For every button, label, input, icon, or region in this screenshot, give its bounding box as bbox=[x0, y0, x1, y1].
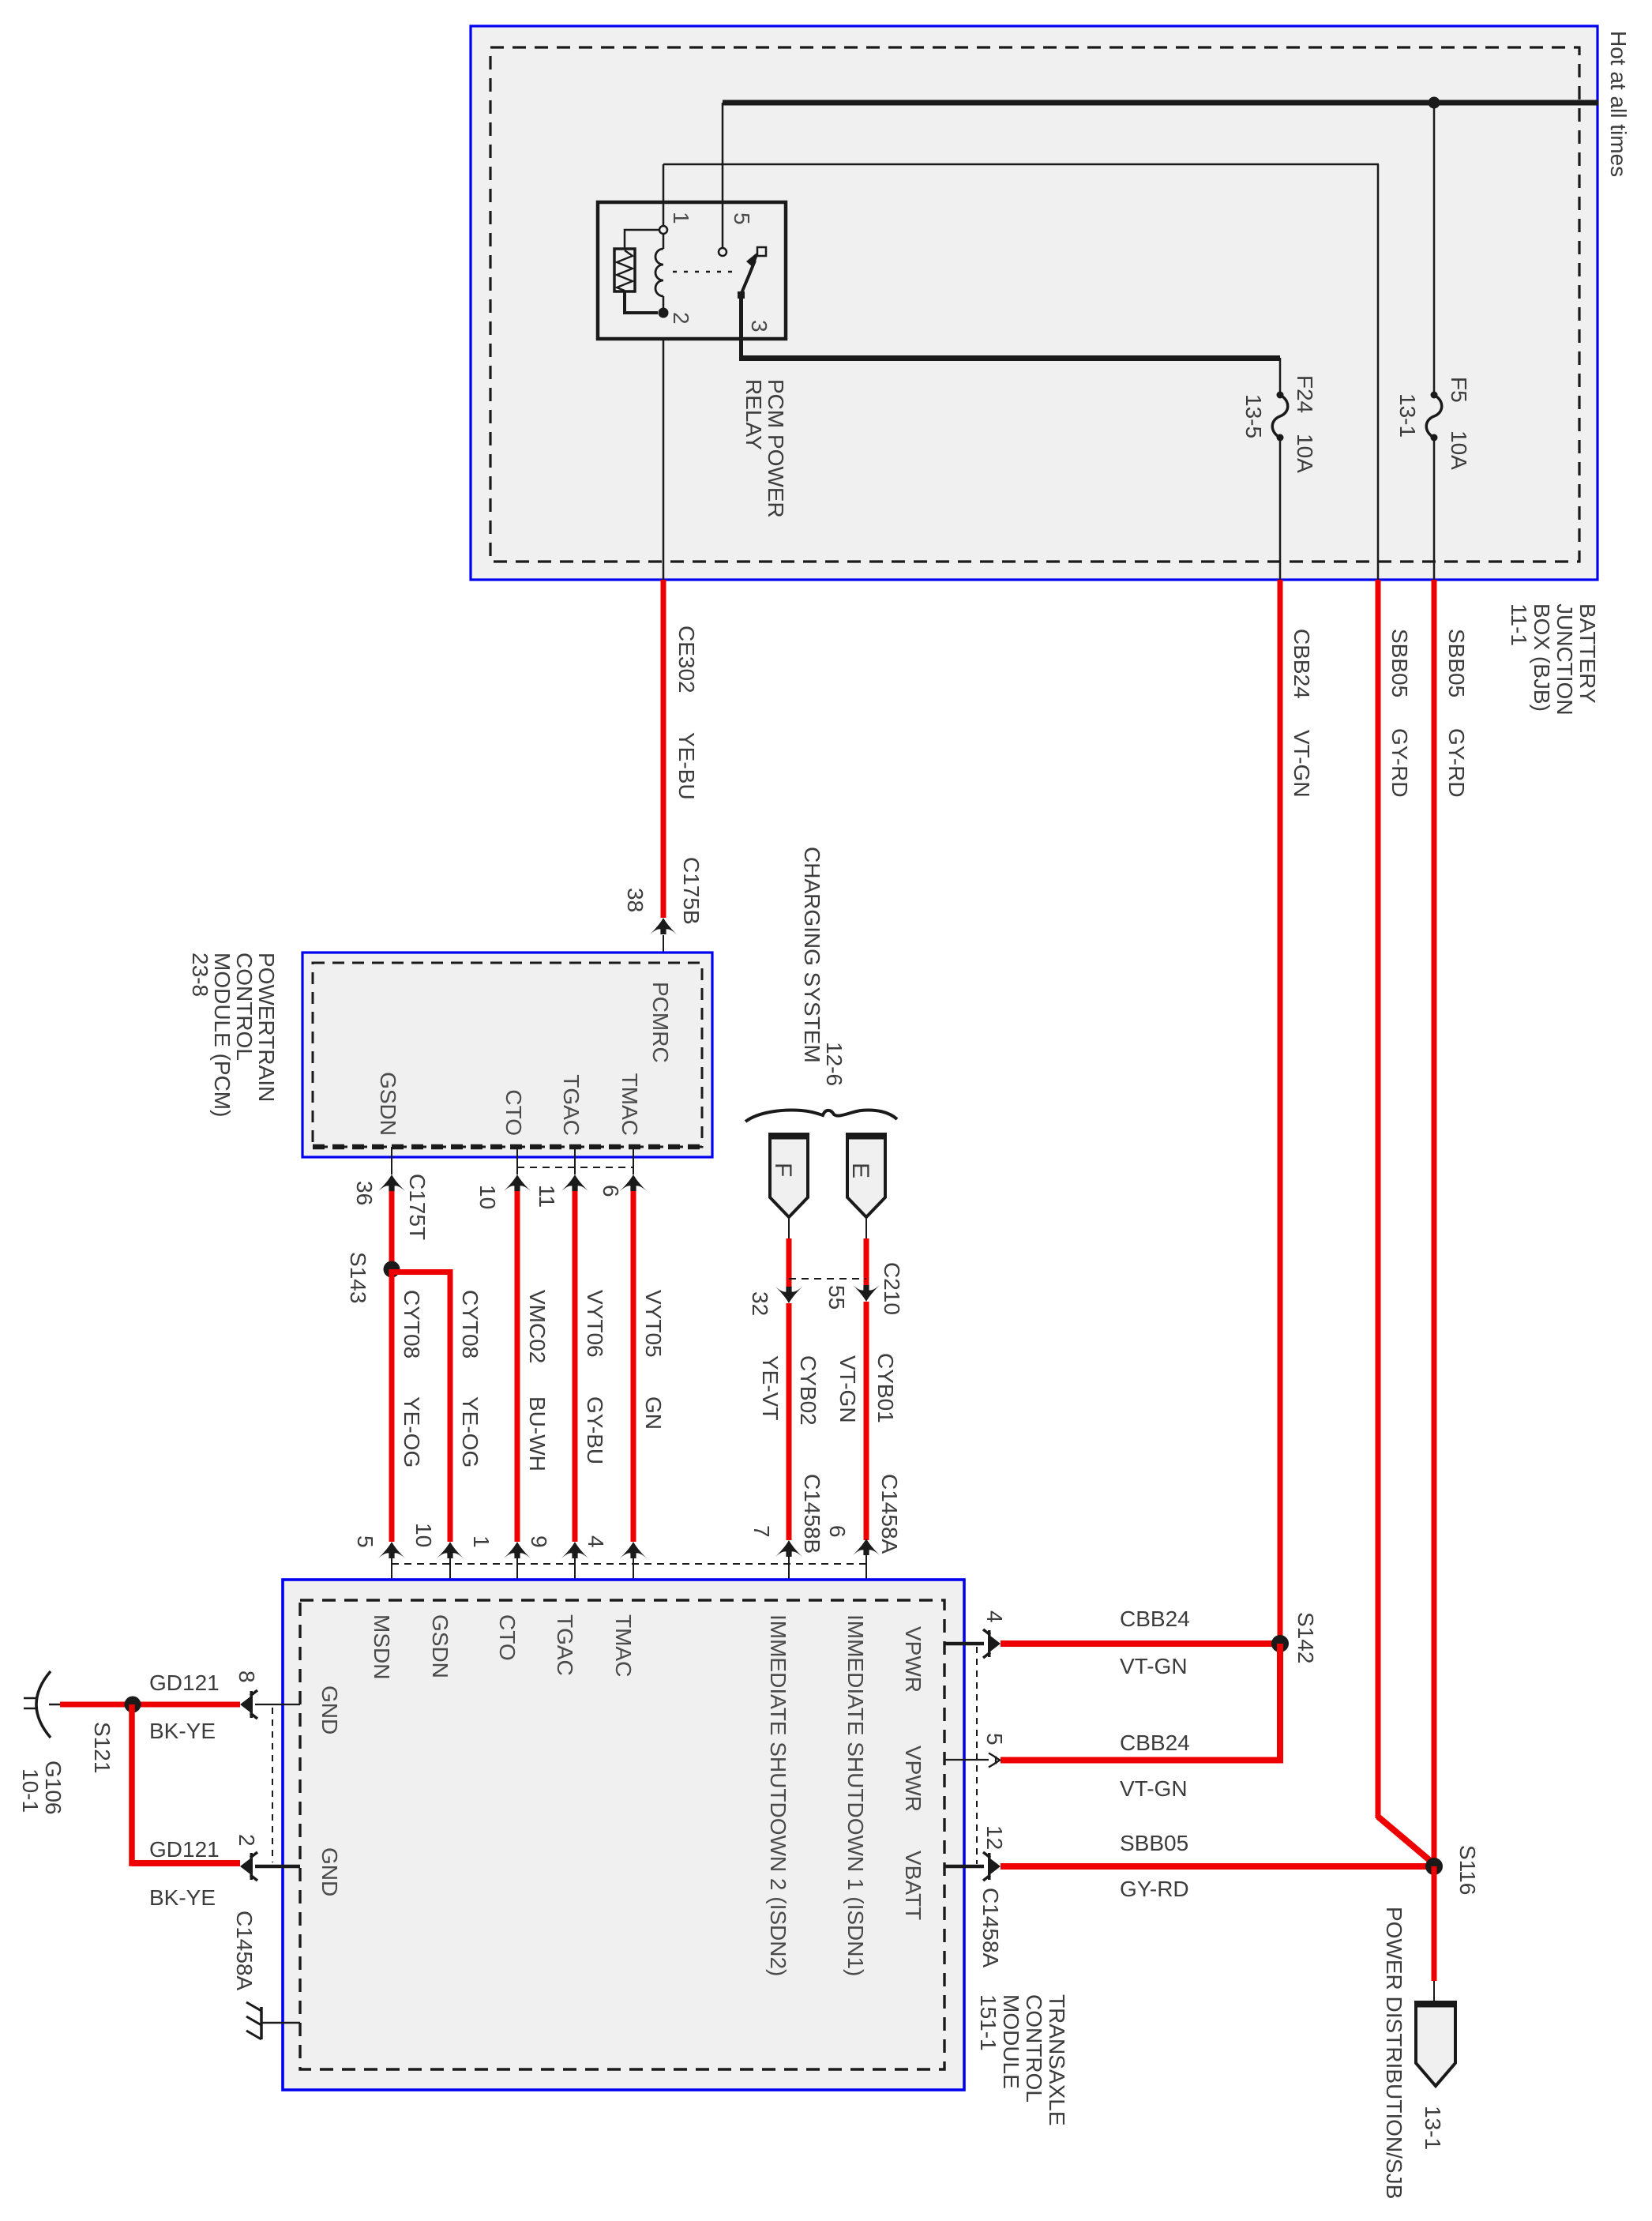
connector arrow pin 36 bbox=[378, 1174, 405, 1191]
relay coil bbox=[663, 234, 665, 249]
svg-text:F5: F5 bbox=[1447, 377, 1471, 403]
svg-text:5: 5 bbox=[730, 212, 754, 225]
wire CTO VMC02 (red) bbox=[515, 1191, 520, 1542]
svg-text:POWER DISTRIBUTION/SJB: POWER DISTRIBUTION/SJB bbox=[1382, 1907, 1406, 2199]
wire: hot-at-all-times bus bbox=[723, 100, 1598, 106]
svg-text:10-1: 10-1 bbox=[18, 1768, 43, 1813]
fuse F24 10A bbox=[1277, 392, 1284, 399]
TCM top connector arrow x=1097 bbox=[853, 1539, 880, 1555]
svg-text:10: 10 bbox=[475, 1185, 500, 1209]
wire CYB02 YE-VT (red) bbox=[787, 1303, 792, 1540]
connector C210 dashed bracket bbox=[789, 1278, 866, 1280]
TCM pin 2 stub (thick) bbox=[255, 1865, 300, 1869]
svg-text:12-6: 12-6 bbox=[822, 1042, 847, 1086]
svg-text:GN: GN bbox=[641, 1396, 666, 1430]
TCM pin 5 stub bbox=[944, 1759, 989, 1761]
wire: SBB05 left diagonal into S116 (red) bbox=[1378, 1817, 1434, 1864]
wire: drop to fuse F24 bbox=[1279, 358, 1282, 395]
svg-text:CYB01: CYB01 bbox=[873, 1353, 898, 1423]
wire SBB05 left vertical (red) bbox=[1376, 580, 1381, 1818]
svg-text:VYT05: VYT05 bbox=[641, 1290, 666, 1358]
svg-text:1: 1 bbox=[469, 1535, 494, 1548]
TCM pin 12 male arrow bbox=[990, 1858, 1001, 1874]
svg-text:55: 55 bbox=[824, 1285, 849, 1310]
svg-text:C175B: C175B bbox=[679, 857, 704, 925]
TCM pin 2 male arrow (left) bbox=[240, 1858, 250, 1874]
wire: fuse F5 to BJB edge bbox=[1433, 438, 1436, 580]
svg-text:BU-WH: BU-WH bbox=[525, 1396, 550, 1471]
dashed connector bracket C1458A (TCM left) bbox=[272, 1708, 273, 1862]
TCM top connector arrow x=570 bbox=[437, 1542, 464, 1558]
svg-text:VPWR: VPWR bbox=[901, 1746, 925, 1812]
wire CE302 YE-BU (red) bbox=[661, 580, 666, 918]
svg-text:SBB05: SBB05 bbox=[1120, 1831, 1188, 1855]
svg-text:1: 1 bbox=[669, 212, 693, 224]
wire: fuse F24 to BJB edge bbox=[1279, 438, 1282, 580]
connector flag POWER DISTRIBUTION/SJB bbox=[1416, 2002, 1455, 2086]
svg-text:CYB02: CYB02 bbox=[796, 1355, 820, 1426]
connector arrow pin 10 bbox=[504, 1174, 531, 1191]
wire: F flag tail bbox=[788, 1217, 790, 1240]
svg-text:MSDN: MSDN bbox=[370, 1614, 394, 1679]
svg-text:YE-VT: YE-VT bbox=[758, 1355, 783, 1420]
wire: pin 38 into PCM bbox=[663, 935, 664, 963]
wire: S143 down to TCM pin 5 (red) bbox=[389, 1269, 395, 1542]
svg-text:12: 12 bbox=[982, 1825, 1007, 1850]
svg-text:BATTERY: BATTERY bbox=[1575, 603, 1600, 704]
svg-text:S116: S116 bbox=[1455, 1845, 1480, 1895]
svg-text:CYT08: CYT08 bbox=[458, 1290, 482, 1359]
dashed connector bracket C1458A (TCM right) bbox=[976, 1647, 978, 1864]
svg-text:VMC02: VMC02 bbox=[525, 1290, 550, 1363]
svg-text:RELAY: RELAY bbox=[742, 379, 766, 450]
svg-text:GSDN: GSDN bbox=[428, 1614, 452, 1678]
svg-text:C175T: C175T bbox=[405, 1174, 430, 1240]
svg-text:TGAC: TGAC bbox=[553, 1614, 577, 1676]
svg-text:MODULE (PCM): MODULE (PCM) bbox=[210, 953, 235, 1117]
svg-text:TMAC: TMAC bbox=[611, 1614, 636, 1677]
PCM pin stub x=655 bbox=[516, 1147, 518, 1174]
wire: bus junction down to fuse F5 bbox=[1433, 103, 1436, 395]
svg-text:2: 2 bbox=[235, 1834, 259, 1847]
svg-text:GY-RD: GY-RD bbox=[1387, 728, 1412, 798]
relay pin 5 terminal bbox=[719, 248, 727, 256]
svg-text:VYT06: VYT06 bbox=[583, 1290, 607, 1358]
splice S116 bbox=[1425, 1858, 1443, 1875]
connector flag E (charging system) bbox=[847, 1134, 885, 1217]
takeout wavy line bbox=[745, 1110, 897, 1122]
svg-text:GD121: GD121 bbox=[149, 1670, 220, 1695]
connector arrow pin 11 bbox=[561, 1174, 588, 1191]
svg-text:POWERTRAIN: POWERTRAIN bbox=[254, 953, 279, 1102]
wire: relay pin 3 down (thick) bbox=[739, 298, 743, 358]
dashed connector bracket C175B (bottom) bbox=[517, 1167, 633, 1168]
wire: E flag tail bbox=[865, 1217, 867, 1240]
connector C175B pin 38 arrow bbox=[650, 918, 677, 934]
wire: vertical drop to relay pin 1 bbox=[663, 164, 665, 227]
ground G106 symbol bbox=[49, 1704, 60, 1706]
wire: S143 branch to pin 10 (red) bbox=[392, 1272, 450, 1543]
C210 arrow pin 55 bbox=[853, 1285, 880, 1302]
svg-text:G106: G106 bbox=[41, 1761, 66, 1815]
svg-text:F: F bbox=[770, 1163, 796, 1177]
svg-text:8: 8 bbox=[235, 1670, 259, 1683]
wire: E to C210 (red) bbox=[864, 1238, 869, 1287]
svg-text:YE-BU: YE-BU bbox=[674, 732, 699, 800]
junction dot on bus (feed to fuse F5) bbox=[1429, 97, 1440, 109]
wire: chassis ground to TCM bbox=[261, 2022, 300, 2024]
C210 arrow pin 32 bbox=[775, 1287, 802, 1303]
svg-text:JUNCTION: JUNCTION bbox=[1553, 603, 1577, 716]
svg-text:BK-YE: BK-YE bbox=[149, 1885, 216, 1910]
relay switch arm with arrowhead bbox=[742, 261, 755, 293]
TCM pin 12 stub bbox=[944, 1865, 984, 1869]
svg-text:10A: 10A bbox=[1447, 430, 1471, 470]
svg-text:38: 38 bbox=[623, 888, 648, 912]
wire CBB24 pin4 to S142 (red) bbox=[1001, 1640, 1279, 1647]
TCM top connector arrow x=802 bbox=[620, 1542, 647, 1558]
svg-text:TMAC: TMAC bbox=[618, 1073, 642, 1136]
svg-text:2: 2 bbox=[669, 312, 693, 325]
svg-text:PCMRC: PCMRC bbox=[648, 982, 673, 1063]
relay pin 2 terminal (solid) bbox=[659, 308, 669, 318]
wire: S121 down and to pin 2 (red) bbox=[132, 1704, 240, 1863]
wire CYB01 VT-GN (red) bbox=[864, 1302, 869, 1540]
TCM top connector arrow x=999 bbox=[775, 1540, 802, 1557]
wire: SBB05 feed drop (left) bbox=[1377, 164, 1380, 580]
svg-text:IMMEDIATE SHUTDOWN 2 (ISDN2): IMMEDIATE SHUTDOWN 2 (ISDN2) bbox=[766, 1614, 790, 1976]
svg-text:GY-BU: GY-BU bbox=[583, 1396, 607, 1464]
svg-text:YE-OG: YE-OG bbox=[400, 1396, 424, 1468]
connector arrow pin 6 bbox=[620, 1174, 647, 1191]
svg-text:S142: S142 bbox=[1293, 1612, 1318, 1663]
svg-text:CBB24: CBB24 bbox=[1120, 1607, 1190, 1631]
svg-text:VT-GN: VT-GN bbox=[1120, 1776, 1188, 1801]
relay K: PCM POWER RELAY box bbox=[598, 202, 786, 339]
svg-text:CHARGING SYSTEM: CHARGING SYSTEM bbox=[800, 847, 824, 1063]
svg-text:11-1: 11-1 bbox=[1507, 603, 1531, 646]
svg-text:GD121: GD121 bbox=[149, 1837, 220, 1862]
svg-text:E: E bbox=[847, 1163, 873, 1178]
wire: relay pin 1 feed (horizontal) bbox=[663, 163, 1379, 166]
svg-text:Hot at all times: Hot at all times bbox=[1606, 31, 1631, 177]
svg-text:VPWR: VPWR bbox=[901, 1626, 925, 1693]
relay actuation dashed link bbox=[673, 271, 739, 273]
svg-text:S143: S143 bbox=[346, 1252, 370, 1303]
TCM pin 4 male arrow bbox=[990, 1636, 1001, 1652]
svg-text:C1458A: C1458A bbox=[978, 1888, 1003, 1968]
wire: C175T pin 36 red to splice S143 bbox=[389, 1191, 395, 1268]
resistor top lead bbox=[625, 230, 659, 249]
svg-text:10A: 10A bbox=[1293, 434, 1317, 473]
TCM pin 8 male arrow (left) bbox=[240, 1697, 250, 1712]
dashed connector bracket C1458B/C1458A (TCM top) bbox=[392, 1563, 866, 1565]
svg-text:C1458B: C1458B bbox=[800, 1474, 824, 1554]
svg-text:SBB05: SBB05 bbox=[1444, 629, 1469, 697]
svg-text:C210: C210 bbox=[880, 1262, 904, 1315]
relay switch pivot bbox=[738, 291, 745, 299]
relay switch contact (open square) bbox=[757, 247, 766, 256]
svg-text:13-1: 13-1 bbox=[1421, 2106, 1445, 2150]
svg-text:5: 5 bbox=[982, 1733, 1007, 1746]
wire: S142 to pin 5 (red) bbox=[1001, 1644, 1280, 1761]
TCM pin 4 stub bbox=[944, 1642, 984, 1646]
svg-text:13-5: 13-5 bbox=[1241, 394, 1266, 438]
svg-text:151-1: 151-1 bbox=[976, 1994, 1001, 2051]
PCM pin stub x=728 bbox=[574, 1147, 576, 1174]
splice S142 bbox=[1271, 1635, 1289, 1652]
wire: relay pin 2 to BJB edge bbox=[663, 339, 665, 580]
svg-text:MODULE: MODULE bbox=[999, 1994, 1023, 2089]
wire: S116 down to power distribution (red) bbox=[1432, 1866, 1437, 1981]
TCM top connector arrow x=655 bbox=[504, 1542, 531, 1558]
PCM pin stub x=496 bbox=[391, 1147, 392, 1174]
wire: relay pin 3 to fuse F24 (thick) bbox=[739, 355, 1280, 361]
svg-text:SBB05: SBB05 bbox=[1387, 629, 1412, 697]
svg-text:GY-RD: GY-RD bbox=[1120, 1877, 1189, 1901]
svg-text:CE302: CE302 bbox=[674, 626, 699, 693]
svg-text:VT-GN: VT-GN bbox=[1120, 1654, 1188, 1678]
fuse F5 10A bbox=[1431, 392, 1438, 399]
svg-text:BOX (BJB): BOX (BJB) bbox=[1530, 603, 1554, 712]
svg-text:GND: GND bbox=[317, 1847, 342, 1896]
resistor (relay suppression) bbox=[614, 249, 635, 291]
TCM top connector arrow x=496 bbox=[378, 1542, 405, 1558]
wire SBB05 pin12 to S116 (red) bbox=[1001, 1863, 1433, 1870]
splice S121 bbox=[125, 1697, 141, 1713]
svg-text:11: 11 bbox=[535, 1185, 559, 1208]
svg-text:CTO: CTO bbox=[501, 1089, 526, 1136]
chassis ground at TCM bbox=[260, 2007, 263, 2039]
svg-text:13-1: 13-1 bbox=[1395, 393, 1420, 438]
svg-text:GND: GND bbox=[317, 1685, 342, 1734]
PCM dashed border bbox=[313, 963, 702, 1147]
svg-text:CYT08: CYT08 bbox=[400, 1290, 424, 1359]
svg-text:GSDN: GSDN bbox=[376, 1072, 400, 1136]
TCM pin 8 stub bbox=[255, 1704, 300, 1705]
svg-text:PCM POWER: PCM POWER bbox=[764, 379, 788, 518]
svg-text:TRANSAXLE: TRANSAXLE bbox=[1045, 1994, 1069, 2126]
svg-text:CONTROL: CONTROL bbox=[232, 953, 257, 1061]
TCM pin 5 open arrow bbox=[989, 1753, 1000, 1768]
connector flag F (charging system) bbox=[770, 1134, 808, 1217]
wire CBB24 vertical (red) bbox=[1278, 580, 1283, 1644]
svg-text:36: 36 bbox=[352, 1181, 377, 1205]
module: TRANSAXLE CONTROL MODULE outline bbox=[283, 1580, 964, 2090]
svg-text:TGAC: TGAC bbox=[559, 1074, 584, 1136]
PCM dashed bottom edge (thick) bbox=[313, 1144, 702, 1150]
TCM dashed border bbox=[300, 1600, 944, 2069]
svg-text:6: 6 bbox=[599, 1185, 623, 1197]
svg-text:CTO: CTO bbox=[495, 1614, 520, 1661]
svg-text:4: 4 bbox=[584, 1535, 608, 1548]
wire TGAC VYT06 (red) bbox=[573, 1191, 578, 1542]
svg-text:F24: F24 bbox=[1293, 375, 1317, 413]
wire: bus to relay pin 5 bbox=[722, 103, 724, 249]
svg-text:BK-YE: BK-YE bbox=[149, 1719, 216, 1743]
svg-text:6: 6 bbox=[825, 1525, 850, 1538]
module: BATTERY JUNCTION BOX (BJB) outline bbox=[471, 26, 1598, 580]
svg-text:CBB24: CBB24 bbox=[1120, 1731, 1190, 1755]
wire SBB05 right vertical (red) bbox=[1432, 580, 1437, 1862]
svg-text:10: 10 bbox=[411, 1523, 436, 1547]
svg-text:IMMEDIATE SHUTDOWN 1 (ISDN1): IMMEDIATE SHUTDOWN 1 (ISDN1) bbox=[843, 1614, 868, 1976]
wire: tail to flag bbox=[1433, 1981, 1435, 2004]
relay pin 1 terminal bbox=[659, 226, 667, 234]
svg-text:32: 32 bbox=[748, 1291, 772, 1316]
wire: F to C210 (red) bbox=[787, 1238, 792, 1287]
svg-text:23-8: 23-8 bbox=[188, 953, 212, 997]
svg-text:5: 5 bbox=[353, 1535, 377, 1548]
wire GD121 ground G106 to S121 to pin 8 (red) bbox=[60, 1702, 240, 1708]
svg-text:C1458A: C1458A bbox=[232, 1911, 257, 1991]
svg-text:3: 3 bbox=[747, 320, 772, 333]
svg-text:CONTROL: CONTROL bbox=[1022, 1994, 1046, 2103]
svg-text:4: 4 bbox=[982, 1610, 1007, 1623]
svg-text:CBB24: CBB24 bbox=[1290, 629, 1314, 699]
svg-text:7: 7 bbox=[749, 1525, 774, 1538]
svg-text:VT-GN: VT-GN bbox=[835, 1355, 860, 1423]
svg-text:C1458A: C1458A bbox=[877, 1474, 902, 1554]
splice S143 bbox=[384, 1261, 400, 1278]
module: POWERTRAIN CONTROL MODULE (PCM) outline bbox=[302, 953, 712, 1157]
resistor bottom lead (thick) bbox=[625, 291, 658, 313]
BJB inner dashed border bbox=[490, 47, 1579, 562]
PCM pin stub x=802 bbox=[633, 1147, 634, 1174]
svg-text:9: 9 bbox=[527, 1535, 551, 1548]
svg-text:GY-RD: GY-RD bbox=[1444, 728, 1469, 798]
svg-text:VBATT: VBATT bbox=[901, 1851, 925, 1920]
svg-text:S121: S121 bbox=[90, 1722, 115, 1773]
svg-text:YE-OG: YE-OG bbox=[458, 1396, 482, 1468]
svg-text:VT-GN: VT-GN bbox=[1290, 730, 1314, 798]
TCM top connector arrow x=728 bbox=[561, 1542, 588, 1558]
wire TMAC VYT05 (red) bbox=[631, 1191, 636, 1542]
